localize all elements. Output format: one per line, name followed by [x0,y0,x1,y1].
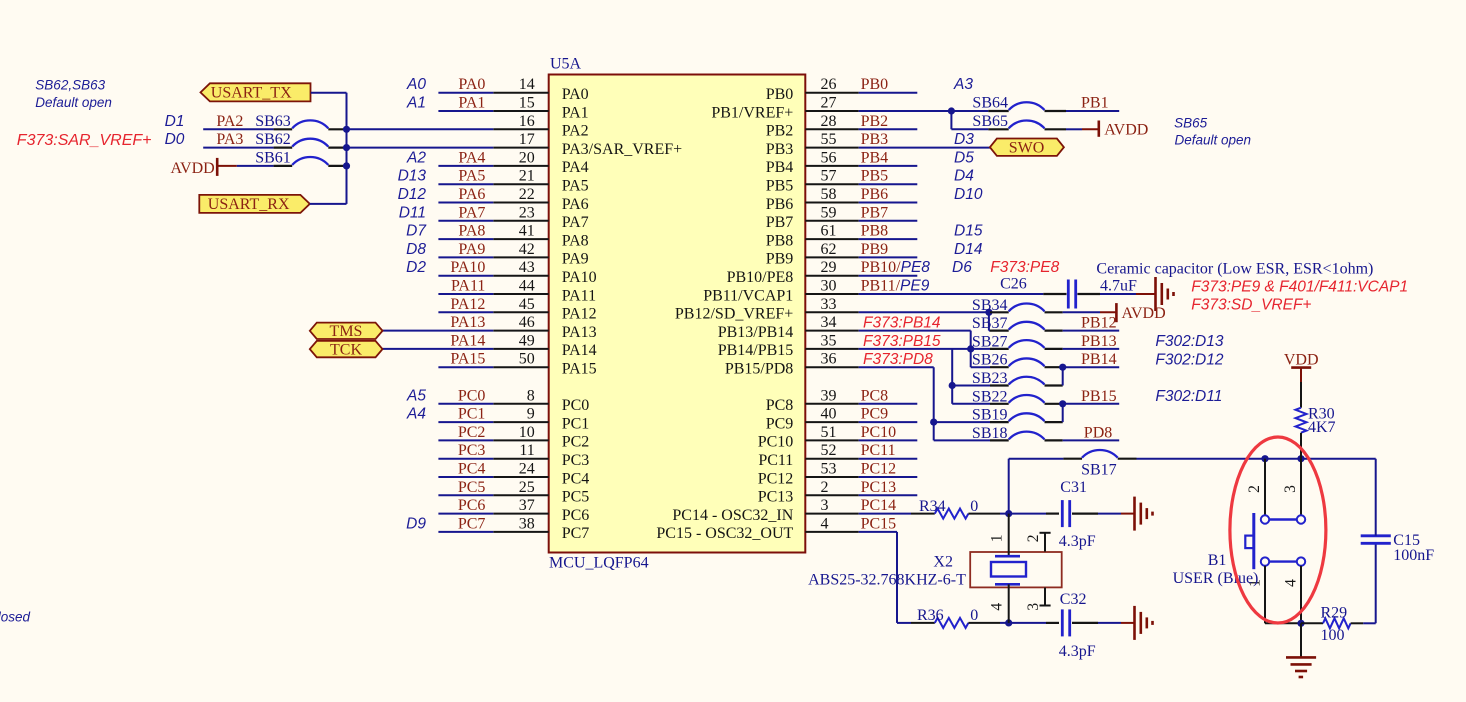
svg-text:25: 25 [519,479,535,496]
wire PA1 [438,110,493,112]
pin 33 PB12/SD_VREF+ (right) [805,311,858,313]
svg-text:PA0: PA0 [458,76,485,93]
svg-text:D8: D8 [406,241,426,258]
svg-text:59: 59 [821,204,837,221]
svg-text:PB4: PB4 [766,159,794,176]
svg-text:PA10: PA10 [450,259,485,276]
resistor R36 [911,622,935,624]
pin 53 PC12 (right) [805,476,858,478]
svg-text:F302:D11: F302:D11 [1155,388,1222,405]
svg-text:0: 0 [970,607,978,624]
svg-text:51: 51 [821,424,837,441]
svg-text:PC6: PC6 [458,497,486,514]
svg-text:D14: D14 [954,241,983,258]
wire down to SB26 [970,349,972,367]
svg-text:PC5: PC5 [562,489,590,506]
svg-text:26: 26 [821,76,837,93]
svg-text:PB4: PB4 [861,149,889,166]
svg-text:PC1: PC1 [562,415,590,432]
power AVDD (top right) [1082,128,1099,130]
wire SB65 to AVDD [1066,128,1082,130]
svg-text:USART_TX: USART_TX [211,84,292,101]
svg-text:30: 30 [821,278,837,295]
svg-text:4: 4 [1282,579,1299,587]
wire to SB65 [951,128,988,130]
pin 29 PB10/PE8 (right) [805,275,858,277]
wire R34 to C31 [1000,513,1046,515]
wire R29 to C15 [1363,622,1376,624]
svg-text:PB5: PB5 [861,168,889,185]
svg-text:2: 2 [1025,535,1042,543]
solder bridge SB61 [274,165,293,167]
wire PD8 [1063,439,1120,441]
wire PC15 [859,531,897,533]
svg-text:A2: A2 [406,149,426,166]
port TCK [310,341,383,357]
junction [948,107,955,114]
svg-text:55: 55 [821,131,837,148]
capacitor C31 [1046,512,1059,514]
svg-text:PC11: PC11 [861,442,896,459]
svg-text:17: 17 [519,131,535,148]
svg-text:PA6: PA6 [562,196,589,213]
svg-text:D11: D11 [399,204,426,221]
svg-text:37: 37 [519,497,535,514]
pin 49 PA14 (left) [493,348,548,350]
svg-text:VDD: VDD [1284,352,1319,369]
svg-text:39: 39 [821,387,837,404]
wire PA6 [438,202,493,204]
wire PC14 [859,513,911,515]
svg-text:PB10/PE8: PB10/PE8 [727,269,794,286]
crystal X2 pin 2 (NC) [1044,533,1046,552]
pin 46 PA13 (left) [493,330,548,332]
wire PC0 [438,403,493,405]
wire PA11 [438,293,493,295]
capacitor C26 [1043,293,1066,295]
pin 4 PC15 - OSC32_OUT (right) [805,531,858,533]
pin 17 PA3/SAR_VREF+ (left) [493,147,548,149]
wire PA14 [383,348,494,350]
pin 22 PA6 (left) [493,202,548,204]
wire PB9 [859,256,918,258]
wire PA3 [203,147,273,149]
svg-text:PC6: PC6 [562,507,590,524]
crystal X2 pin 3 (NC) [1044,588,1046,606]
svg-text:F373:PB14: F373:PB14 [863,315,941,332]
svg-text:C31: C31 [1060,479,1087,496]
svg-text:PC10: PC10 [758,434,794,451]
highlight ellipse [1230,437,1326,623]
svg-text:D0: D0 [165,131,185,148]
svg-text:PA0: PA0 [562,86,589,103]
svg-text:PA7: PA7 [562,214,589,231]
solder bridge SB17 [1063,458,1082,460]
junction [985,309,992,316]
svg-text:9: 9 [527,406,535,423]
svg-text:D2: D2 [406,259,426,276]
svg-text:PB3: PB3 [861,131,889,148]
svg-text:PC3: PC3 [458,442,486,459]
svg-text:PC9: PC9 [861,406,889,423]
svg-text:2: 2 [821,479,829,496]
svg-text:42: 42 [519,241,535,258]
pin 10 PC2 (left) [493,439,548,441]
pin 41 PA8 (left) [493,238,548,240]
button B1 contacts top [1261,515,1269,523]
wire PA2 to pin [347,128,494,130]
svg-text:2: 2 [1246,485,1263,493]
svg-text:F373:PD8: F373:PD8 [863,351,933,368]
svg-text:3: 3 [1282,485,1299,493]
svg-text:SB62,SB63: SB62,SB63 [35,77,105,92]
wire to SB23 [952,385,990,387]
svg-text:38: 38 [519,515,535,532]
svg-text:PC0: PC0 [458,387,486,404]
svg-text:PA15: PA15 [450,351,485,368]
svg-text:PD8: PD8 [1084,424,1112,441]
wire C31 to gnd [1098,513,1121,515]
wire SB19 right up [1062,404,1064,422]
port USART_RX [199,195,309,213]
pin 24 PC4 (left) [493,476,548,478]
junction [949,382,956,389]
wire down to SB22 [951,386,953,404]
svg-text:TCK: TCK [330,342,362,359]
svg-text:PB2: PB2 [861,113,889,130]
svg-text:SB61: SB61 [255,149,291,166]
ground (C31) [1121,513,1135,515]
pin 11 PC3 (left) [493,458,548,460]
svg-text:PA9: PA9 [562,251,589,268]
pin 21 PA5 (left) [493,183,548,185]
solder bridge SB63 [274,128,293,130]
pin 61 PB8 (right) [805,238,858,240]
wire pin35 [859,348,990,350]
junction [1005,619,1012,626]
svg-text:22: 22 [519,186,535,203]
svg-text:PB10/PE8: PB10/PE8 [861,259,931,276]
wire C26 to AVDD gnd [1100,293,1136,295]
svg-text:Default open: Default open [1175,133,1252,148]
svg-text:F373:PE9 & F401/F411:VCAP1: F373:PE9 & F401/F411:VCAP1 [1191,279,1408,296]
pin 35 PB14/PB15 (right) [805,348,858,350]
svg-text:PA5: PA5 [562,178,589,195]
svg-text:Ceramic capacitor (Low ESR, ES: Ceramic capacitor (Low ESR, ESR<1ohm) [1096,261,1373,278]
wire PA4 [438,165,493,167]
wire C32 to gnd [1098,622,1121,624]
wire PC2 [438,439,493,441]
svg-text:100: 100 [1321,627,1345,644]
wire pin27 [859,110,952,112]
svg-text:16: 16 [519,113,535,130]
svg-text:A1: A1 [406,95,426,112]
wire PA13 [383,330,494,332]
wire PB10/PE8 [859,275,918,277]
wire PC13 [859,494,918,496]
ground (button) [1300,623,1302,657]
junction [1297,620,1304,627]
svg-text:Default open: Default open [35,95,112,110]
svg-text:MCU_LQFP64: MCU_LQFP64 [549,555,649,572]
svg-text:PA14: PA14 [450,332,485,349]
wire PC7 [438,531,493,533]
junction [967,345,974,352]
pin 36 PB15/PD8 (right) [805,366,858,368]
svg-text:R36: R36 [917,607,944,624]
pin 45 PA12 (left) [493,311,548,313]
pin 27 PB1/VREF+ (right) [805,110,858,112]
pin 28 PB2 (right) [805,128,858,130]
svg-text:PB8: PB8 [861,223,889,240]
wire PA7 [438,220,493,222]
svg-text:53: 53 [821,461,837,478]
svg-text:PB14: PB14 [1081,351,1117,368]
pin 14 PA0 (left) [493,92,548,94]
solder bridge SB62 [274,147,293,149]
svg-text:PC8: PC8 [766,397,794,414]
svg-text:45: 45 [519,296,535,313]
port SWO [990,139,1064,156]
svg-text:PC15 - OSC32_OUT: PC15 - OSC32_OUT [656,525,793,542]
wire PC5 [438,494,493,496]
svg-text:PB3: PB3 [766,141,794,158]
svg-text:PB15/PD8: PB15/PD8 [725,361,793,378]
port USART_TX [201,83,311,101]
wire PC6 [438,513,493,515]
wire USART_TX [311,92,347,94]
resistor R29 [1301,622,1323,624]
junction [930,419,937,426]
wire PC10 [859,439,918,441]
wire PA9 [438,256,493,258]
power AVDD bars (right of C26) [1136,293,1156,295]
wire PA5 [438,183,493,185]
IC U5A MCU_LQFP64 body [549,75,806,553]
svg-text:TMS: TMS [330,323,363,340]
button B1 actuator [1252,513,1255,569]
junction [1059,400,1066,407]
svg-text:PB14/PB15: PB14/PB15 [718,342,794,359]
wire PA8 [438,238,493,240]
svg-text:PC11: PC11 [758,452,793,469]
wire PA2 [203,128,273,130]
wire pin30 to C26 [859,293,1044,295]
svg-text:29: 29 [821,259,837,276]
svg-text:0: 0 [970,498,978,515]
svg-text:4.7uF: 4.7uF [1100,278,1137,295]
wire PB2 [859,128,918,130]
svg-text:PA2: PA2 [562,123,589,140]
svg-text:PA8: PA8 [562,232,589,249]
crystal X2 [970,552,1061,587]
svg-text:PA12: PA12 [562,306,597,323]
svg-text:11: 11 [519,442,534,459]
wire PA10 [438,275,493,277]
capacitor C32 [1046,622,1059,624]
svg-text:PC13: PC13 [861,479,897,496]
svg-text:28: 28 [821,113,837,130]
resistor R30 [1300,382,1302,408]
svg-text:21: 21 [519,168,535,185]
svg-text:SB64: SB64 [972,95,1008,112]
pin 16 PA2 (left) [493,128,548,130]
svg-text:PB15: PB15 [1081,388,1117,405]
svg-text:F302:D13: F302:D13 [1155,333,1223,350]
svg-text:SB65: SB65 [972,113,1008,130]
pin 50 PA15 (left) [493,366,548,368]
wire pin33 [859,311,990,313]
pin 15 PA1 (left) [493,110,548,112]
wire SB23 right up [1062,367,1064,385]
svg-text:PA9: PA9 [458,241,485,258]
svg-text:USART_RX: USART_RX [208,196,290,213]
svg-text:PB11/PE9: PB11/PE9 [861,278,930,295]
svg-text:PA2: PA2 [216,113,243,130]
wire PB13 [1063,348,1120,350]
svg-text:PB11/VCAP1: PB11/VCAP1 [703,287,793,304]
svg-text:ABS25-32.768KHZ-6-T: ABS25-32.768KHZ-6-T [808,572,966,589]
pin 56 PB4 (right) [805,165,858,167]
svg-text:AVDD: AVDD [1122,305,1166,322]
svg-text:PC3: PC3 [562,452,590,469]
solder bridge SB65 [988,128,1008,130]
junction [343,126,350,133]
ground (C32) [1121,622,1135,624]
svg-text:SWO: SWO [1009,140,1045,157]
svg-text:PA5: PA5 [458,168,485,185]
pin 58 PB6 (right) [805,202,858,204]
wire PB4 [859,165,918,167]
svg-text:PA13: PA13 [562,324,597,341]
wire PC12 [859,476,918,478]
svg-text:46: 46 [519,314,535,331]
pin 30 PB11/VCAP1 (right) [805,293,858,295]
button B1 pins 1,4 wires [1264,566,1266,624]
wire PA3 to pin [347,147,494,149]
svg-text:Default closed: Default closed [0,610,30,625]
wire PB6 [859,202,918,204]
wire to SB64 [951,110,988,112]
wire PB8 [859,238,918,240]
pin 40 PC9 (right) [805,421,858,423]
wire PC9 [859,421,918,423]
svg-text:PB7: PB7 [766,214,794,231]
wire vertical USART bus [346,93,348,204]
svg-text:PB12: PB12 [1081,315,1117,332]
svg-text:PC7: PC7 [458,515,486,532]
svg-text:B1: B1 [1208,552,1227,569]
resistor R34 [911,513,935,515]
svg-text:D10: D10 [954,186,983,203]
wire PA15 [438,366,493,368]
wire USART_RX [310,203,347,205]
pin 59 PB7 (right) [805,220,858,222]
svg-text:USER (Blue): USER (Blue) [1173,570,1259,587]
pin 52 PC11 (right) [805,458,858,460]
junction [343,144,350,151]
svg-text:14: 14 [519,76,535,93]
wire C15 top [1375,459,1377,536]
pin 57 PB5 (right) [805,183,858,185]
junction [1059,364,1066,371]
svg-text:U5A: U5A [550,56,582,73]
svg-text:PC7: PC7 [562,525,590,542]
svg-text:PC4: PC4 [458,461,486,478]
wire PB15 [1063,403,1120,405]
svg-text:D6: D6 [952,259,972,276]
svg-text:PC14 - OSC32_IN: PC14 - OSC32_IN [672,507,793,524]
svg-text:R29: R29 [1321,605,1348,622]
svg-text:23: 23 [519,204,535,221]
wire PC4 [438,476,493,478]
svg-text:PB0: PB0 [766,86,794,103]
pin 38 PC7 (left) [493,531,548,533]
svg-text:PA10: PA10 [562,269,597,286]
wire PA12 [438,311,493,313]
svg-text:SB63: SB63 [255,113,291,130]
svg-text:PA8: PA8 [458,223,485,240]
svg-text:3: 3 [1025,603,1042,611]
junction [1297,455,1304,462]
svg-text:C26: C26 [1000,276,1027,293]
wire to SB19 [934,421,990,423]
wire to SB18 [934,439,990,441]
svg-text:D1: D1 [165,113,185,130]
svg-text:PA7: PA7 [458,204,485,221]
svg-text:4: 4 [821,515,829,532]
wire PB12 [1063,330,1120,332]
solder bridge SB64 [988,110,1008,112]
svg-text:D7: D7 [406,223,427,240]
pin 44 PA11 (left) [493,293,548,295]
wire vertical SB64-SB65 [950,111,952,129]
svg-text:4K7: 4K7 [1308,419,1336,436]
svg-text:PB6: PB6 [766,196,794,213]
svg-text:4.3pF: 4.3pF [1059,643,1096,660]
svg-text:PB1/VREF+: PB1/VREF+ [711,104,793,121]
svg-text:SB17: SB17 [1081,462,1117,479]
svg-text:R34: R34 [919,498,946,515]
svg-text:49: 49 [519,332,535,349]
svg-text:A5: A5 [406,387,426,404]
svg-text:D3: D3 [954,131,974,148]
svg-text:4: 4 [989,603,1006,611]
pin 62 PB9 (right) [805,256,858,258]
button B1 pins 2,3 wires [1264,459,1266,516]
pin 2 PC13 (right) [805,494,858,496]
wire pin33 down [988,312,990,330]
svg-text:35: 35 [821,332,837,349]
svg-text:15: 15 [519,95,535,112]
svg-text:20: 20 [519,149,535,166]
power AVDD (SB34) [1100,311,1116,313]
svg-text:PA11: PA11 [562,287,596,304]
svg-text:PA15: PA15 [562,361,597,378]
wire PC1 [438,421,493,423]
svg-text:PB9: PB9 [766,251,794,268]
svg-text:A3: A3 [953,76,973,93]
button B1 contacts bottom [1261,557,1269,565]
wire SB17 left [1009,458,1064,460]
junction [343,162,350,169]
svg-text:PC12: PC12 [861,461,897,478]
svg-text:AVDD: AVDD [1104,122,1148,139]
wire pin34 [859,330,971,332]
wire PB0 [859,92,918,94]
svg-text:PC2: PC2 [562,434,590,451]
svg-text:F373:SAR_VREF+: F373:SAR_VREF+ [17,132,152,149]
